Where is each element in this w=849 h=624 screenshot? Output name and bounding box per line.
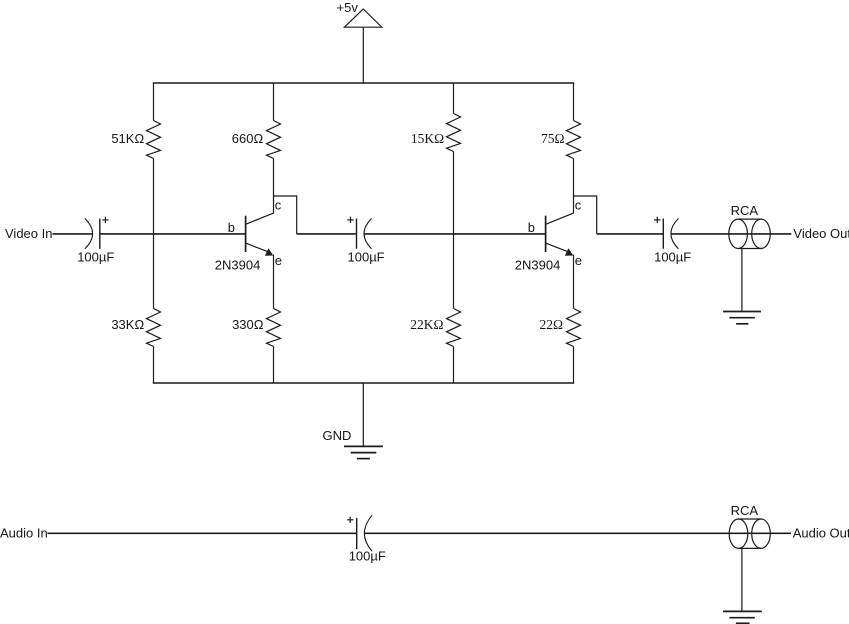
svg-text:RCA: RCA <box>731 203 759 218</box>
wire bottom bus <box>153 382 574 384</box>
wire rail3 top lead <box>453 83 455 114</box>
wire GND stem <box>362 383 364 446</box>
svg-text:b: b <box>228 220 235 235</box>
wire rail3 bottom lead <box>453 347 455 384</box>
capacitor C3 100uF (video output) <box>654 217 678 249</box>
ground video RCA <box>723 312 761 324</box>
svg-text:75Ω: 75Ω <box>541 131 565 146</box>
svg-text:660Ω: 660Ω <box>232 131 264 146</box>
svg-text:GND: GND <box>323 428 352 443</box>
svg-text:Audio Out: Audio Out <box>793 526 849 541</box>
wire C1 to Q1 base <box>100 233 246 235</box>
wire Q2 emitter vertical <box>573 255 575 309</box>
resistor 75 <box>567 121 581 159</box>
resistor 33K <box>147 309 161 347</box>
ground symbol GND <box>344 446 383 458</box>
wire top supply bus <box>153 82 574 84</box>
wire rail1 bottom lead <box>153 347 155 384</box>
svg-text:100µF: 100µF <box>349 549 386 564</box>
capacitor C2 100uF (interstage) <box>347 217 371 249</box>
svg-text:2N3904: 2N3904 <box>215 258 261 273</box>
svg-text:Video Out: Video Out <box>793 226 849 241</box>
svg-text:b: b <box>528 220 535 235</box>
wire audio RCA ground stem <box>741 548 743 611</box>
connector RCA audio <box>729 519 770 548</box>
connector RCA video <box>729 219 771 248</box>
svg-text:22KΩ: 22KΩ <box>410 317 443 332</box>
svg-text:+5v: +5v <box>337 0 359 15</box>
wire C3 to video RCA and out <box>671 233 792 235</box>
wire Q2 output to C3 <box>597 233 664 235</box>
wire rail1 top lead <box>153 83 155 121</box>
svg-text:330Ω: 330Ω <box>232 317 264 332</box>
svg-text:51KΩ: 51KΩ <box>111 131 144 146</box>
resistor 51K <box>147 121 161 159</box>
resistor 15K <box>447 114 461 152</box>
wire rail4 top lead <box>573 83 575 121</box>
power symbol +5v triangle <box>344 9 382 27</box>
svg-text:33KΩ: 33KΩ <box>111 317 144 332</box>
svg-text:15KΩ: 15KΩ <box>411 131 444 146</box>
wire audio input line <box>48 532 357 534</box>
svg-text:c: c <box>275 198 282 213</box>
svg-text:22Ω: 22Ω <box>539 317 563 332</box>
capacitor C4 100uF (audio) <box>347 515 372 551</box>
svg-text:Audio In: Audio In <box>0 526 48 541</box>
svg-text:RCA: RCA <box>731 503 759 518</box>
transistor Q1 2N3904 <box>246 213 274 256</box>
resistor 660 <box>267 121 281 159</box>
wire Q2 collector vertical <box>573 159 575 214</box>
wire Q1 emitter vertical <box>273 255 275 309</box>
svg-text:100µF: 100µF <box>654 249 691 264</box>
wire rail2 top lead <box>273 83 275 121</box>
transistor Q2 2N3904 <box>546 213 574 256</box>
wire video input lead <box>53 233 93 235</box>
wire C2 to Q2 base <box>364 233 546 235</box>
wire Q1 collector step to output <box>274 196 297 234</box>
wire rail2 bottom lead <box>273 347 275 384</box>
svg-text:100µF: 100µF <box>77 249 114 264</box>
wire +5v stem <box>362 27 364 83</box>
svg-text:100µF: 100µF <box>348 249 385 264</box>
resistor 330 <box>267 309 281 347</box>
svg-text:c: c <box>575 198 582 213</box>
svg-text:e: e <box>275 253 282 268</box>
svg-text:Video In: Video In <box>5 226 52 241</box>
wire Q1 output to C2 <box>297 233 357 235</box>
wire video RCA ground stem <box>741 249 743 312</box>
wire audio line to RCA and out <box>364 532 791 534</box>
wire rail4 bottom lead <box>573 347 575 384</box>
svg-text:e: e <box>575 253 582 268</box>
wire rail3 middle <box>453 152 455 309</box>
wire Q2 collector step to output <box>574 196 597 234</box>
resistor 22K <box>447 309 461 347</box>
resistor 22 <box>567 309 581 347</box>
svg-text:2N3904: 2N3904 <box>515 258 561 273</box>
ground audio RCA <box>723 611 762 623</box>
capacitor C1 100uF (video input) <box>85 217 109 249</box>
wire rail1 middle <box>153 159 155 309</box>
wire Q1 collector vertical <box>273 159 275 214</box>
